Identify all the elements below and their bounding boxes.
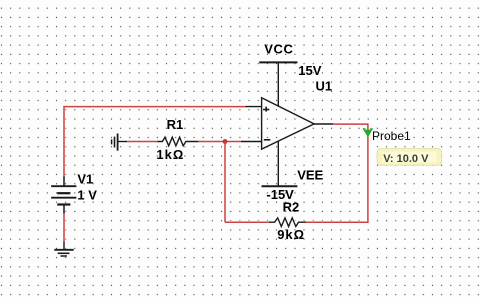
wire: to R2 left bbox=[225, 221, 269, 223]
wire: op-amp output black stub bbox=[314, 123, 333, 125]
battery V1 bbox=[51, 176, 76, 213]
ground (sideways, at R1 input) bbox=[112, 134, 128, 151]
svg-text:1 V: 1 V bbox=[77, 188, 97, 203]
VCC rail symbol bbox=[259, 61, 297, 63]
op-amp VEE power pin bbox=[277, 141, 279, 186]
wire: sideways ground to R1 bbox=[127, 141, 157, 143]
resistor R2 9kΩ bbox=[269, 218, 306, 227]
wire: black stub into op-amp - input bbox=[241, 141, 262, 143]
svg-text:VEE: VEE bbox=[297, 167, 323, 182]
op-amp + input mark bbox=[263, 107, 269, 112]
wire: R2 right to output node bbox=[306, 124, 368, 222]
svg-text:Probe1: Probe1 bbox=[372, 129, 411, 143]
svg-text:1kΩ: 1kΩ bbox=[156, 147, 184, 162]
svg-text:V: 10.0 V: V: 10.0 V bbox=[383, 153, 429, 165]
wire: non-inverting input net, horizontal top segment bbox=[64, 107, 246, 177]
op-amp - input mark bbox=[264, 139, 271, 141]
svg-text:U1: U1 bbox=[316, 78, 333, 93]
wire: black stub into op-amp + input bbox=[246, 106, 262, 108]
svg-text:V1: V1 bbox=[77, 171, 93, 186]
wire: feedback vertical from junction bbox=[224, 142, 226, 223]
svg-text:-15V: -15V bbox=[266, 187, 294, 202]
ground (bottom left) bbox=[54, 250, 73, 256]
wire: black stub to ground bbox=[63, 241, 65, 249]
wire: R1 to inverting node bbox=[198, 141, 241, 143]
wire underpaint (hides grid dots beneath wires) bbox=[64, 107, 368, 250]
op-amp VCC power pin bbox=[277, 62, 279, 106]
svg-text:R1: R1 bbox=[167, 117, 184, 132]
junction: inverting node bbox=[223, 139, 228, 144]
wire: V1 negative to ground bbox=[63, 214, 65, 242]
VEE rail symbol bbox=[262, 185, 298, 187]
probe Probe1 arrow bbox=[363, 128, 373, 137]
probe tooltip box bbox=[377, 149, 441, 166]
svg-text:9kΩ: 9kΩ bbox=[277, 227, 305, 242]
svg-text:VCC: VCC bbox=[264, 41, 293, 56]
op-amp U1 triangle bbox=[262, 98, 315, 149]
svg-text:15V: 15V bbox=[298, 63, 321, 78]
resistor R1 1kΩ bbox=[158, 137, 199, 146]
